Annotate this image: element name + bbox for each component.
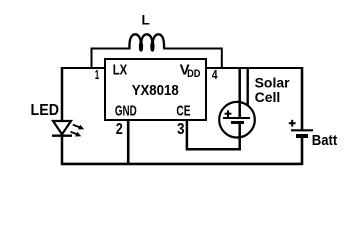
wire top-loop right (from inductor to corner, down to pin-4 lead): [163, 49, 222, 70]
wire bottom rail (ground return: LED, pin 2, battery): [61, 163, 303, 166]
wire solar-cell bottom lead (plate down through circle to CE link): [238, 123, 241, 150]
battery BT1 plus sign: [289, 120, 296, 127]
wire pin-4 lead (IC right edge to battery corner): [206, 67, 303, 69]
LED D1 light arrow 2: [71, 132, 82, 137]
wire LED anode branch (down from pin-1 lead): [61, 67, 64, 120]
inductor L1: [129, 34, 164, 50]
IC U1 YX8018 body: [105, 59, 206, 120]
solar cell PV1 circle: [219, 102, 255, 138]
svg-text:3: 3: [177, 121, 185, 138]
wire battery top lead (corner from pin-4 lead down to plate): [301, 67, 304, 130]
svg-text:L: L: [142, 13, 150, 28]
LED D1 cathode bar: [52, 135, 72, 137]
battery BT1 negative short plate: [296, 134, 308, 138]
svg-text:GND: GND: [115, 103, 137, 120]
svg-text:YX8018: YX8018: [132, 82, 179, 99]
svg-text:LED: LED: [31, 102, 60, 119]
LED D1 triangle: [53, 121, 71, 134]
wire pin-3 / CE link to solar cell bottom: [187, 121, 241, 149]
wire pin-2 stub to bottom rail: [127, 121, 130, 165]
wire top-loop left (vertical from pin-1 lead up, horizontal to inductor): [92, 49, 131, 70]
battery BT1 positive long plate: [291, 129, 313, 131]
svg-text:2: 2: [116, 121, 123, 138]
wire solar-cell second top lead (parallel stub to circle upper-right): [246, 68, 248, 106]
svg-text:LX: LX: [113, 61, 128, 78]
svg-text:Batt: Batt: [312, 132, 338, 149]
svg-text:Cell: Cell: [255, 89, 281, 105]
solar cell PV1 plus sign: [225, 110, 232, 117]
svg-text:4: 4: [212, 67, 218, 82]
wire pin-1 lead (LED branch top to IC left edge): [61, 67, 105, 69]
svg-text:DD: DD: [187, 68, 201, 80]
wire LED cathode to bottom rail: [61, 136, 64, 165]
wire battery bottom lead to bottom rail: [301, 136, 304, 165]
LED D1 light arrow 1: [73, 125, 84, 130]
solar cell PV1 long plate: [223, 117, 250, 119]
svg-text:CE: CE: [176, 102, 190, 119]
wire solar-cell top lead (from pin-4 lead down into circle to plate): [238, 68, 241, 118]
svg-text:1: 1: [95, 67, 100, 82]
solar cell PV1 short plate: [231, 121, 244, 124]
